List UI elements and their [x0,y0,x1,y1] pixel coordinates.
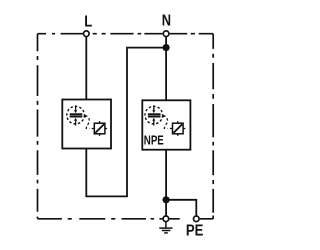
upper arrow [75,105,77,110]
junction dot above ground terminal [163,196,170,203]
terminal PE [194,216,200,222]
ground symbol [159,222,172,233]
device boundary: bottom dash-dot border [38,218,214,220]
spark gap electrodes [70,113,83,117]
wire left box bottom routed to N junction [86,48,166,197]
SPD element box L (left) [62,100,111,149]
wire L terminal to left SPD box [85,34,87,100]
terminal L [84,31,90,37]
device boundary: right dash-dot border [212,34,214,219]
svg-text:L: L [84,14,92,31]
disconnector leads [92,121,107,136]
wire N terminal down through junction to NPE box [165,34,167,101]
terminal N [163,31,169,37]
svg-text:NPE: NPE [144,132,164,147]
trigger arrow right of circle [84,114,88,117]
device boundary: left dash-dot border [37,34,39,219]
disconnector square with diagonal [94,123,105,134]
left box inner symbol: spark gap in dashed circle + disconnector [67,105,107,135]
junction dot at N [163,44,170,51]
right box inner symbol (same as left, shifted) [145,105,185,135]
device boundary: top dash-dot border [38,34,214,219]
wire NPE box bottom to PE junction [165,150,167,219]
wire PE junction to PE terminal [166,200,196,216]
SPD element box N-PE (right) [142,100,190,149]
lower arrow [75,121,77,126]
svg-text:N: N [162,13,171,30]
terminal ground [163,216,169,222]
dashed linkage curve to disconnector [86,118,89,128]
svg-text:PE: PE [186,223,204,240]
spark gap dashed circle [67,106,85,124]
